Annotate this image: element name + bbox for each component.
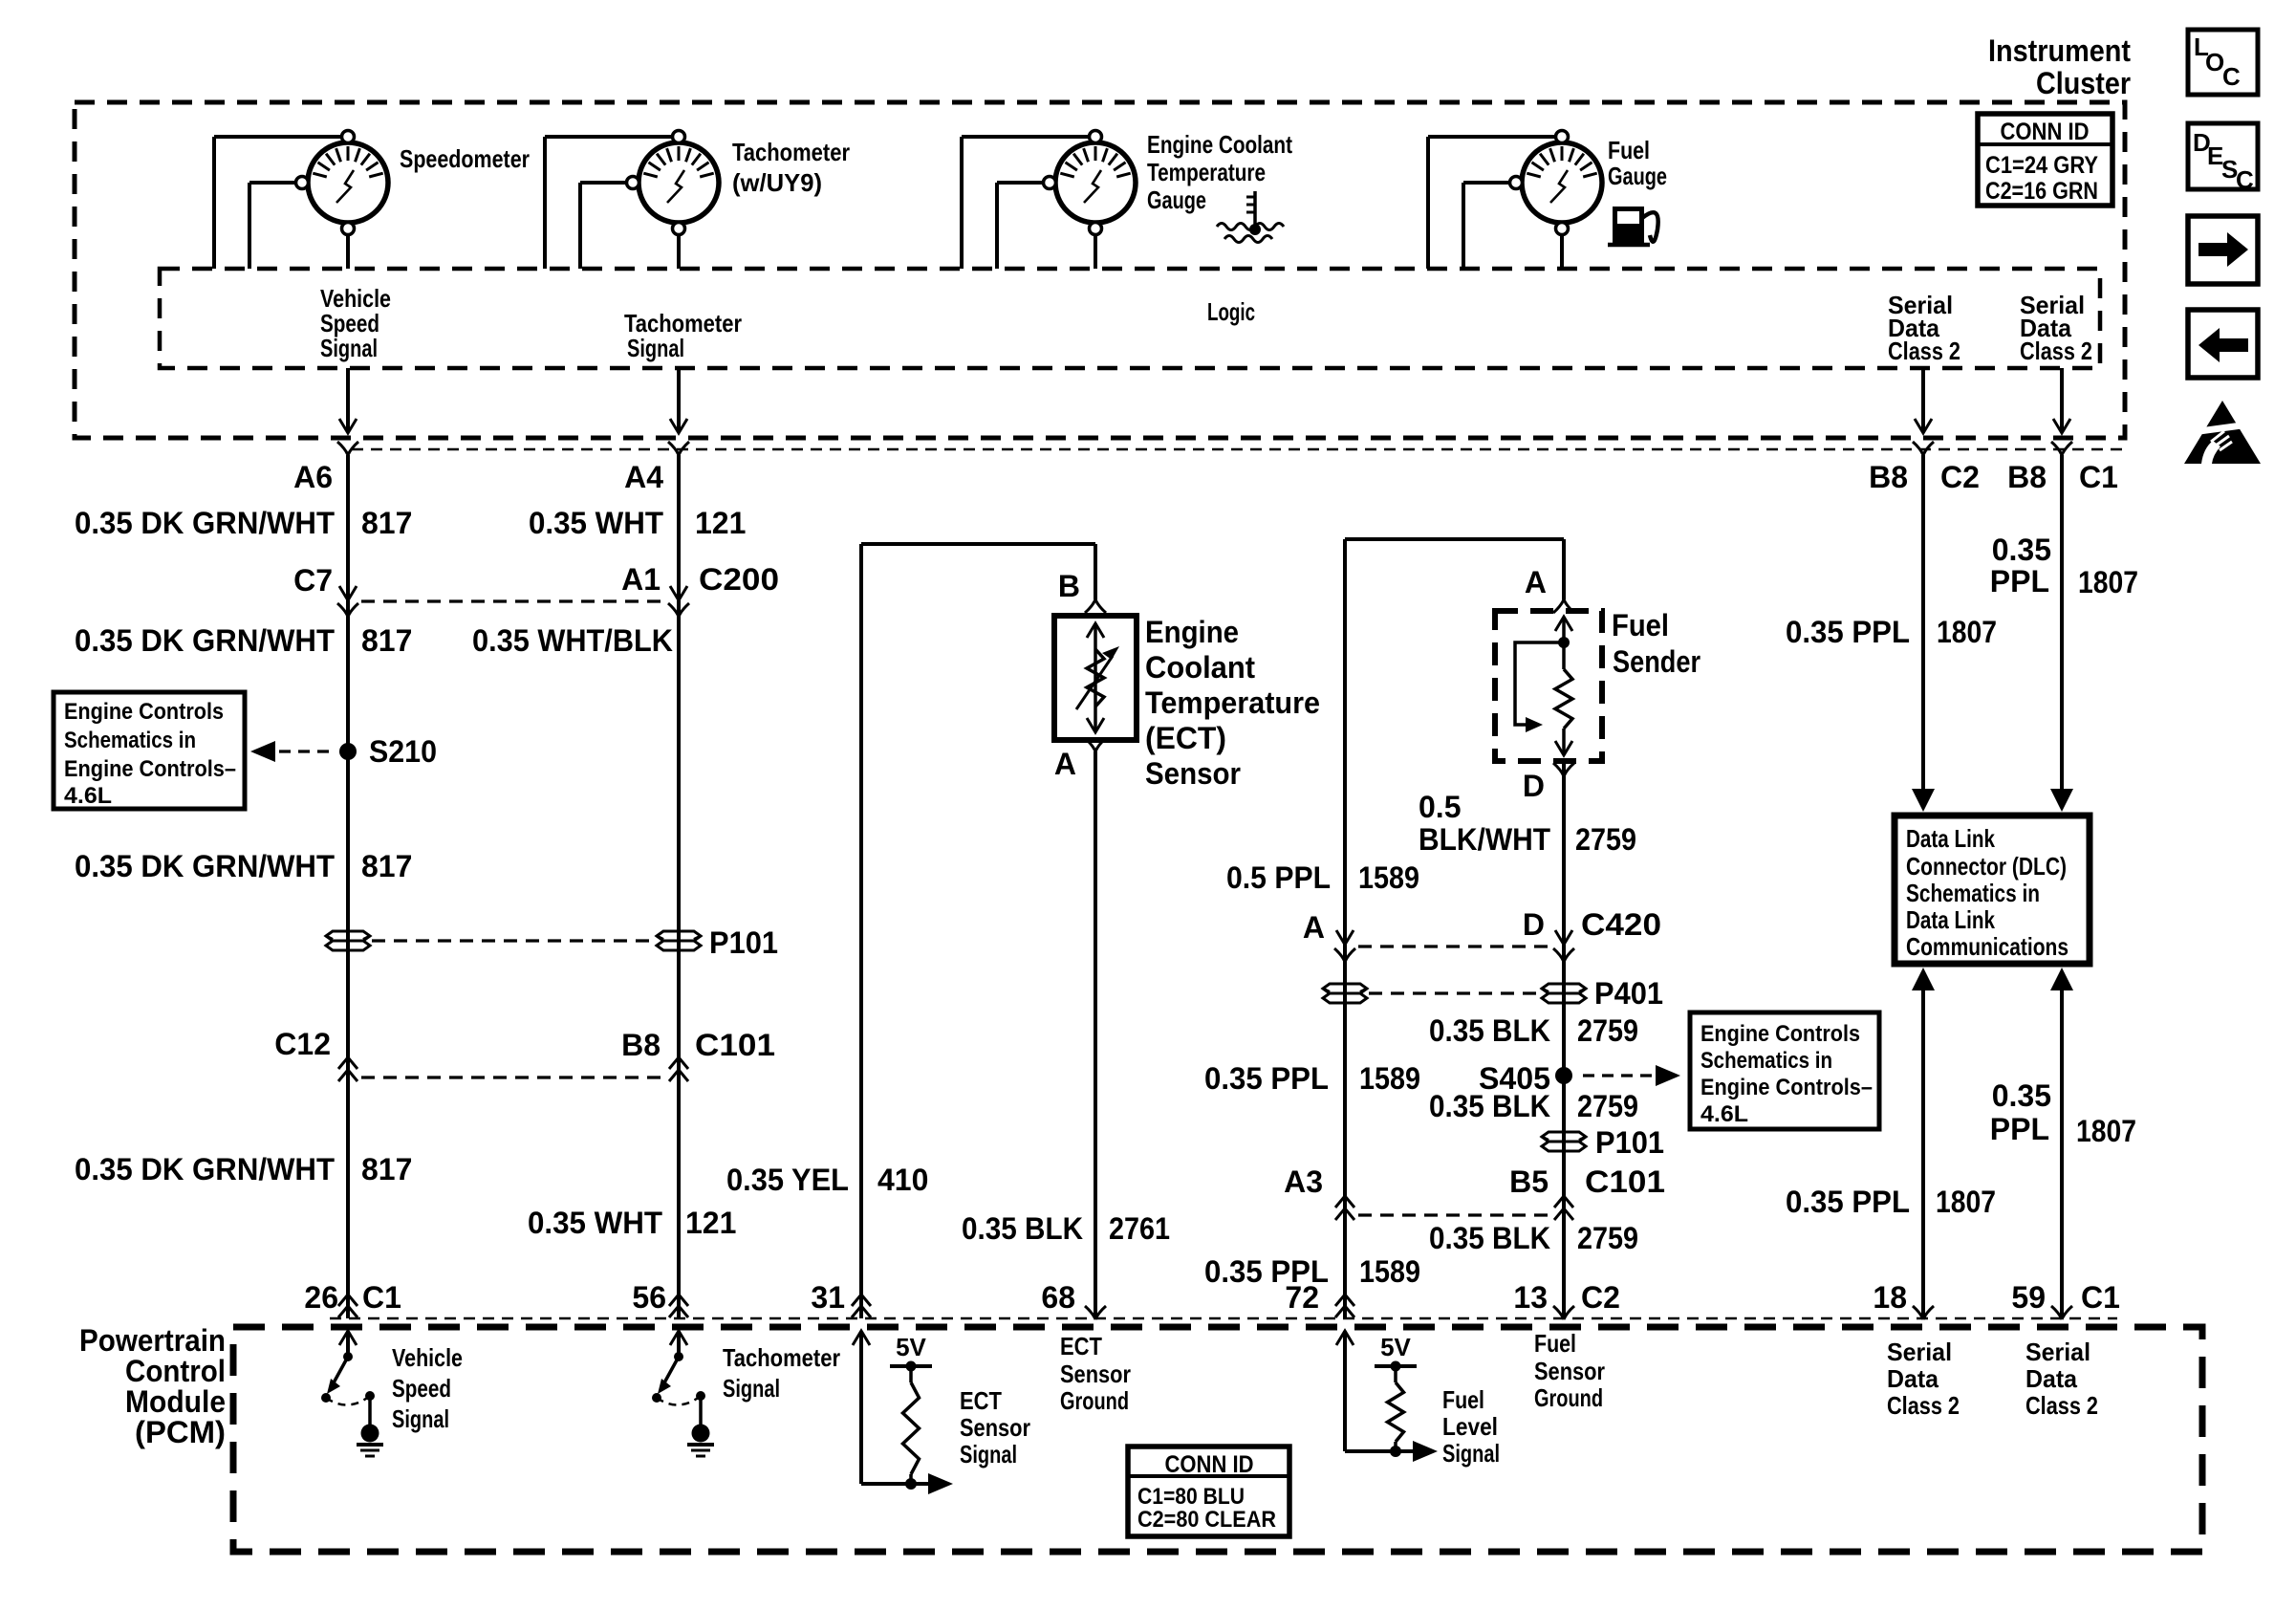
svg-text:4.6L: 4.6L [64, 783, 112, 809]
svg-text:B5: B5 [1509, 1164, 1549, 1199]
svg-text:A6: A6 [293, 460, 333, 494]
svg-text:0.35: 0.35 [1992, 533, 2051, 567]
svg-text:1589: 1589 [1359, 1061, 1420, 1096]
svg-text:Sender: Sender [1613, 644, 1700, 679]
svg-text:0.35: 0.35 [1992, 1078, 2051, 1113]
svg-text:0.35 DK GRN/WHT: 0.35 DK GRN/WHT [75, 506, 335, 540]
svg-text:0.35 BLK: 0.35 BLK [1429, 1013, 1550, 1048]
svg-text:Gauge: Gauge [1147, 185, 1206, 214]
svg-text:0.35 WHT/BLK: 0.35 WHT/BLK [472, 623, 673, 658]
svg-text:0.35 DK GRN/WHT: 0.35 DK GRN/WHT [75, 849, 335, 883]
svg-text:S210: S210 [369, 734, 437, 769]
svg-text:Cluster: Cluster [2036, 66, 2131, 100]
svg-text:0.35 WHT: 0.35 WHT [529, 506, 663, 540]
svg-text:2759: 2759 [1577, 1013, 1638, 1048]
svg-text:Schematics in: Schematics in [1906, 879, 2040, 907]
svg-text:1807: 1807 [1937, 615, 1997, 649]
svg-text:ECT: ECT [1060, 1332, 1102, 1360]
svg-text:121: 121 [695, 506, 746, 540]
svg-text:Speed: Speed [392, 1374, 451, 1403]
svg-text:C1: C1 [362, 1280, 401, 1315]
svg-text:1807: 1807 [1936, 1185, 1996, 1219]
svg-text:Tachometer: Tachometer [732, 138, 850, 166]
svg-text:0.35 PPL: 0.35 PPL [1786, 1185, 1910, 1219]
svg-text:B8: B8 [621, 1028, 661, 1062]
svg-text:Engine Controls: Engine Controls [1700, 1021, 1860, 1047]
svg-text:0.35 PPL: 0.35 PPL [1204, 1061, 1329, 1096]
svg-text:C2: C2 [1581, 1280, 1620, 1315]
svg-text:C7: C7 [293, 563, 333, 598]
svg-text:B8: B8 [2007, 460, 2047, 494]
svg-text:Control: Control [125, 1354, 226, 1388]
svg-text:C200: C200 [699, 562, 779, 597]
svg-text:817: 817 [361, 506, 412, 540]
svg-text:0.35 YEL: 0.35 YEL [726, 1163, 849, 1197]
svg-text:P101: P101 [709, 925, 778, 960]
svg-text:1807: 1807 [2076, 1114, 2136, 1148]
svg-text:Gauge: Gauge [1608, 162, 1667, 190]
svg-text:Signal: Signal [320, 334, 378, 362]
svg-text:0.35 WHT: 0.35 WHT [528, 1206, 662, 1240]
svg-text:59: 59 [2011, 1280, 2046, 1315]
svg-text:Connector (DLC): Connector (DLC) [1906, 852, 2067, 881]
svg-text:PPL: PPL [1990, 1112, 2049, 1146]
svg-text:(w/UY9): (w/UY9) [732, 168, 822, 197]
svg-text:C1: C1 [2081, 1280, 2120, 1315]
svg-text:0.35 BLK: 0.35 BLK [1429, 1221, 1550, 1255]
svg-text:A: A [1054, 747, 1076, 781]
svg-text:4.6L: 4.6L [1700, 1101, 1748, 1127]
svg-text:A: A [1525, 565, 1547, 599]
svg-text:Class 2: Class 2 [1888, 337, 1960, 365]
svg-text:C: C [2222, 62, 2241, 91]
svg-text:P401: P401 [1594, 976, 1663, 1011]
svg-text:Engine Controls: Engine Controls [64, 699, 224, 725]
svg-text:Sensor: Sensor [960, 1413, 1030, 1442]
svg-text:Fuel: Fuel [1608, 136, 1650, 164]
svg-text:C2=16 GRN: C2=16 GRN [1985, 178, 2098, 205]
svg-text:0.5 PPL: 0.5 PPL [1226, 860, 1331, 895]
svg-text:Signal: Signal [960, 1440, 1017, 1469]
svg-text:C101: C101 [695, 1028, 775, 1062]
svg-text:(PCM): (PCM) [135, 1415, 226, 1449]
svg-text:56: 56 [632, 1280, 666, 1315]
svg-text:817: 817 [361, 1152, 412, 1186]
svg-text:0.35 PPL: 0.35 PPL [1786, 615, 1910, 649]
svg-text:410: 410 [877, 1163, 928, 1197]
svg-text:ECT: ECT [960, 1386, 1002, 1415]
svg-text:72: 72 [1285, 1280, 1319, 1315]
svg-text:C420: C420 [1581, 907, 1661, 942]
svg-text:Tachometer: Tachometer [723, 1343, 840, 1372]
svg-text:Coolant: Coolant [1145, 650, 1255, 685]
svg-text:Engine Coolant: Engine Coolant [1147, 130, 1292, 159]
svg-text:5V: 5V [1380, 1333, 1411, 1361]
svg-text:Signal: Signal [1442, 1439, 1500, 1468]
svg-text:Data: Data [2025, 1364, 2078, 1393]
svg-text:Schematics in: Schematics in [1700, 1048, 1832, 1074]
svg-text:Instrument: Instrument [1988, 33, 2131, 68]
svg-text:Signal: Signal [392, 1404, 449, 1433]
svg-text:Sensor: Sensor [1534, 1357, 1605, 1385]
svg-text:Sensor: Sensor [1060, 1360, 1131, 1388]
svg-text:C1: C1 [2079, 460, 2118, 494]
svg-text:Signal: Signal [627, 334, 684, 362]
svg-text:A: A [1303, 910, 1325, 945]
svg-text:2759: 2759 [1575, 822, 1636, 857]
svg-text:Fuel: Fuel [1442, 1385, 1484, 1414]
svg-text:2761: 2761 [1109, 1211, 1170, 1246]
svg-text:Fuel: Fuel [1534, 1329, 1576, 1358]
svg-text:Ground: Ground [1534, 1383, 1603, 1412]
svg-text:Module: Module [125, 1384, 226, 1419]
svg-text:Powertrain: Powertrain [79, 1323, 226, 1358]
svg-text:A1: A1 [621, 562, 661, 597]
svg-text:Data Link: Data Link [1906, 905, 1995, 934]
svg-text:Class 2: Class 2 [2025, 1391, 2098, 1420]
svg-text:Speedometer: Speedometer [400, 144, 530, 173]
svg-text:P101: P101 [1595, 1125, 1664, 1160]
svg-text:817: 817 [361, 623, 412, 658]
svg-text:68: 68 [1041, 1280, 1075, 1315]
svg-text:C101: C101 [1585, 1164, 1665, 1199]
svg-text:1589: 1589 [1358, 860, 1419, 895]
svg-text:B: B [1058, 569, 1080, 603]
svg-text:C2=80 CLEAR: C2=80 CLEAR [1137, 1507, 1276, 1533]
svg-text:26: 26 [304, 1280, 338, 1315]
svg-text:2759: 2759 [1577, 1221, 1638, 1255]
svg-text:C12: C12 [274, 1027, 331, 1061]
svg-text:Signal: Signal [723, 1374, 780, 1403]
svg-text:Serial: Serial [2025, 1338, 2090, 1366]
svg-text:Vehicle: Vehicle [392, 1343, 463, 1372]
svg-text:Serial: Serial [1887, 1338, 1952, 1366]
svg-text:D: D [1523, 907, 1545, 942]
svg-text:18: 18 [1873, 1280, 1907, 1315]
svg-text:C1=80 BLU: C1=80 BLU [1137, 1484, 1245, 1510]
svg-text:Sensor: Sensor [1145, 756, 1241, 791]
svg-text:B8: B8 [1869, 460, 1908, 494]
svg-text:Fuel: Fuel [1612, 608, 1669, 642]
svg-text:Class 2: Class 2 [2020, 337, 2092, 365]
svg-text:0.35 BLK: 0.35 BLK [1429, 1089, 1550, 1123]
svg-text:2759: 2759 [1577, 1089, 1638, 1123]
svg-text:5V: 5V [896, 1333, 926, 1361]
svg-text:BLK/WHT: BLK/WHT [1419, 822, 1550, 857]
svg-text:Ground: Ground [1060, 1386, 1129, 1415]
svg-text:Data Link: Data Link [1906, 824, 1995, 853]
svg-text:C2: C2 [1940, 460, 1980, 494]
svg-text:C: C [2236, 165, 2254, 194]
svg-text:13: 13 [1513, 1280, 1548, 1315]
svg-text:Temperature: Temperature [1145, 685, 1320, 720]
svg-text:Schematics in: Schematics in [64, 728, 196, 753]
svg-text:0.35 DK GRN/WHT: 0.35 DK GRN/WHT [75, 1152, 335, 1186]
svg-text:0.35 BLK: 0.35 BLK [962, 1211, 1083, 1246]
svg-text:1589: 1589 [1359, 1254, 1420, 1289]
svg-text:0.5: 0.5 [1419, 790, 1461, 824]
svg-text:A4: A4 [624, 460, 663, 494]
svg-text:CONN ID: CONN ID [2001, 119, 2090, 145]
svg-text:817: 817 [361, 849, 412, 883]
svg-text:CONN ID: CONN ID [1165, 1451, 1254, 1478]
svg-text:121: 121 [685, 1206, 736, 1240]
svg-text:Communications: Communications [1906, 932, 2069, 961]
svg-text:A3: A3 [1284, 1164, 1323, 1199]
svg-text:31: 31 [811, 1280, 845, 1315]
svg-text:PPL: PPL [1990, 564, 2049, 598]
svg-text:Class 2: Class 2 [1887, 1391, 1960, 1420]
svg-text:Temperature: Temperature [1147, 158, 1266, 186]
svg-text:(ECT): (ECT) [1145, 721, 1226, 755]
svg-text:0.35 DK GRN/WHT: 0.35 DK GRN/WHT [75, 623, 335, 658]
svg-text:Engine Controls–: Engine Controls– [1700, 1075, 1873, 1100]
svg-text:Data: Data [1887, 1364, 1939, 1393]
svg-text:C1=24 GRY: C1=24 GRY [1985, 152, 2098, 179]
svg-text:Engine Controls–: Engine Controls– [64, 756, 236, 782]
svg-text:1807: 1807 [2078, 565, 2138, 599]
svg-text:D: D [1523, 769, 1545, 803]
svg-text:Engine: Engine [1145, 615, 1239, 649]
svg-text:Logic: Logic [1207, 297, 1255, 326]
svg-text:Level: Level [1442, 1412, 1498, 1441]
